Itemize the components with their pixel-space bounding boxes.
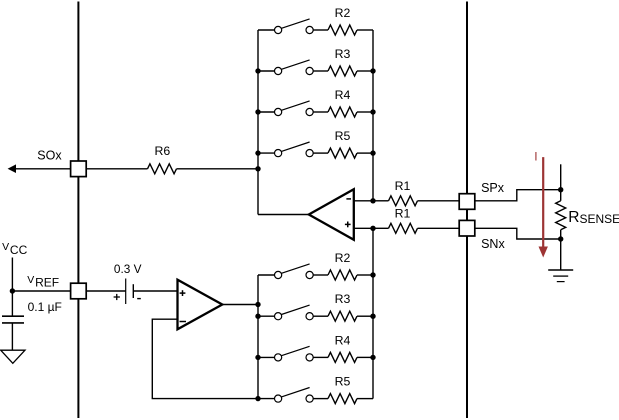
resistor R5 (bottom) xyxy=(328,375,357,404)
svg-text:R2: R2 xyxy=(335,6,351,20)
node U1 inverting input junction xyxy=(370,198,375,203)
node top network left bus junctions xyxy=(255,68,260,171)
wire bottom R4 row mid xyxy=(313,356,328,358)
wire top R4 row left xyxy=(258,111,275,113)
wire junction to VREF pad xyxy=(12,290,70,292)
wire top R5 row mid xyxy=(313,152,328,154)
pin SPx pad xyxy=(459,194,475,210)
battery 0.3 V offset source xyxy=(114,262,142,304)
wire top R4 row mid xyxy=(313,111,328,113)
svg-text:VCC: VCC xyxy=(2,241,27,257)
arrow SOx (points left) xyxy=(8,164,16,173)
wire U2 output xyxy=(222,304,258,306)
ground (Rsense) xyxy=(548,270,573,282)
resistor R5 (top) xyxy=(328,129,357,158)
svg-text:0.3 V: 0.3 V xyxy=(114,262,142,276)
svg-text:R5: R5 xyxy=(335,129,351,143)
svg-text:0.1 µF: 0.1 µF xyxy=(28,300,62,314)
resistor R1 (bottom, to SNx) xyxy=(389,206,418,233)
node U2 output junction xyxy=(255,302,260,307)
resistor R2 (top) xyxy=(328,6,357,35)
wire bottom R3 row left xyxy=(258,315,275,317)
wire bottom network left bus xyxy=(257,275,259,399)
wire right device bus xyxy=(466,2,468,419)
wire bottom R3 row mid xyxy=(313,315,328,317)
switch bottom R5 xyxy=(275,388,314,403)
svg-text:R3: R3 xyxy=(335,47,351,61)
switch top R4 xyxy=(275,101,314,116)
svg-text:R4: R4 xyxy=(335,88,351,102)
pin SNx pad xyxy=(459,220,475,236)
svg-text:I: I xyxy=(534,150,537,164)
svg-text:SPx: SPx xyxy=(481,181,505,195)
svg-text:R1: R1 xyxy=(395,179,411,193)
node bottom network left bus junctions xyxy=(255,314,260,402)
current arrow I xyxy=(534,150,548,258)
wire top R4 row right xyxy=(357,111,373,113)
wire bottom R2 row mid xyxy=(313,274,328,276)
switch top R5 xyxy=(275,142,314,157)
wire SPx to Rsense top xyxy=(475,190,561,201)
wire top R3 row left xyxy=(258,70,275,72)
wire Rsense bottom xyxy=(560,230,562,270)
node top network right bus junctions xyxy=(370,68,375,156)
op-amp U2 (buffer) xyxy=(178,280,223,330)
resistor R3 (bottom) xyxy=(328,292,357,321)
switch bottom R2 xyxy=(275,264,314,279)
wire top R2 row mid xyxy=(313,29,328,31)
wire R6 to summing node xyxy=(177,168,259,170)
ground (Vref cap) xyxy=(1,350,25,363)
wire top R5 row right xyxy=(357,152,373,154)
wire top network left bus xyxy=(257,30,259,215)
wire top network right bus xyxy=(372,30,374,201)
op-amp U1 (output on left) xyxy=(309,189,354,240)
wire bottom R4 row right xyxy=(357,356,373,358)
wire bottom R2 row right xyxy=(357,274,373,276)
node Rsense top junction xyxy=(558,187,563,192)
wire bottom R3 row right xyxy=(357,315,373,317)
svg-text:R3: R3 xyxy=(335,292,351,306)
resistor R1 (top, to SPx) xyxy=(389,179,418,206)
resistor R3 (top) xyxy=(328,47,357,76)
wire battery to U2 + input xyxy=(133,290,177,292)
svg-text:R2: R2 xyxy=(335,251,351,265)
wire R1 bottom to SNx xyxy=(418,227,460,229)
wire bottom R4 row left xyxy=(258,356,275,358)
wire top R3 row mid xyxy=(313,70,328,72)
wire bottom R5 row right xyxy=(357,398,373,400)
node Rsense bottom junction xyxy=(558,236,563,241)
node bottom network right bus junctions xyxy=(370,272,375,360)
wire R1 top to SPx xyxy=(418,200,460,202)
wire VREF pad to battery xyxy=(86,290,126,292)
resistor R6 xyxy=(148,144,177,174)
wire SOx to R6 xyxy=(86,168,147,170)
resistor R2 (bottom) xyxy=(328,251,357,280)
capacitor 0.1 uF xyxy=(2,291,62,350)
pin SOx pad xyxy=(71,161,87,177)
pin VREF pad xyxy=(71,283,87,299)
switch top R2 xyxy=(275,19,314,34)
switch bottom R3 xyxy=(275,305,314,320)
svg-text:SNx: SNx xyxy=(481,237,505,251)
wire bottom network right bus xyxy=(372,228,374,398)
svg-text:R6: R6 xyxy=(155,144,171,158)
wire bottom R5 row left xyxy=(258,398,275,400)
wire SOx output xyxy=(15,168,71,170)
wire bottom R5 row mid xyxy=(313,398,328,400)
svg-text:R1: R1 xyxy=(395,206,411,220)
wire top R5 row left xyxy=(258,152,275,154)
switch bottom R4 xyxy=(275,346,314,361)
wire bottom R2 row left xyxy=(258,274,275,276)
svg-text:SOx: SOx xyxy=(37,149,62,163)
node VCC/VREF junction xyxy=(10,288,15,293)
wire top R2 row right xyxy=(357,29,373,31)
node U1 non-inverting input junction xyxy=(370,226,375,231)
svg-text:RSENSE: RSENSE xyxy=(568,209,619,226)
wire top R3 row right xyxy=(357,70,373,72)
switch top R3 xyxy=(275,60,314,75)
wire U1 inverting input xyxy=(354,200,373,202)
svg-text:R4: R4 xyxy=(335,333,351,347)
wire SNx to Rsense bottom xyxy=(475,228,561,239)
wire U1 output to summing node xyxy=(258,214,309,216)
svg-text:R5: R5 xyxy=(335,375,351,389)
wire node to R1 top xyxy=(373,200,389,202)
wire U2 inverting input feedback xyxy=(152,319,257,398)
wire top R2 row left xyxy=(258,29,275,31)
wire U1 non-inverting input xyxy=(354,227,373,229)
resistor RSENSE xyxy=(556,201,619,230)
resistor R4 (top) xyxy=(328,88,357,117)
wire Rsense top stub xyxy=(560,164,562,201)
wire VCC down xyxy=(11,258,13,292)
resistor R4 (bottom) xyxy=(328,333,357,362)
wire left device bus xyxy=(77,2,79,419)
wire node to R1 bottom xyxy=(373,227,389,229)
svg-text:VREF: VREF xyxy=(27,274,59,290)
